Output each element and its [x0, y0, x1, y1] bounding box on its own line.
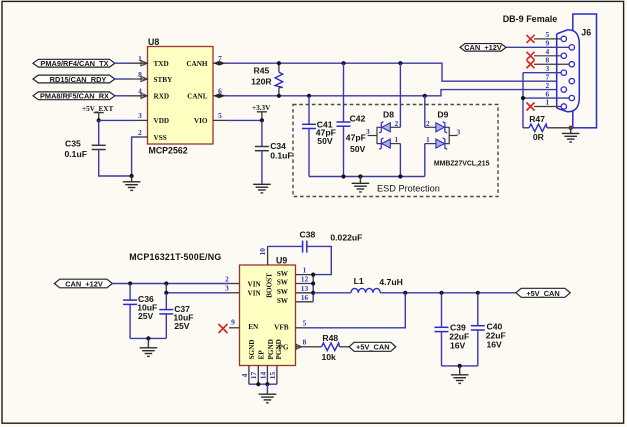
junction ground stem C36/C37 — [146, 336, 150, 340]
no-connect X pin 8 — [527, 60, 535, 68]
svg-text:50V: 50V — [350, 144, 366, 154]
svg-text:12: 12 — [301, 275, 309, 284]
wire ground vertical pin3-pin6-R47 — [522, 73, 524, 128]
svg-text:17: 17 — [249, 372, 258, 380]
svg-text:VDD: VDD — [154, 117, 170, 125]
junction C41 on CANL — [307, 94, 311, 98]
svg-text:PGND: PGND — [275, 339, 283, 359]
svg-text:SW: SW — [277, 288, 289, 296]
U9 pin 10 BOOST stub — [258, 246, 268, 265]
capacitor C41 47pF 50V — [302, 119, 336, 146]
wire U8 VSS to ground corner — [132, 137, 139, 176]
junction SW12 — [311, 281, 315, 285]
svg-text:VIN: VIN — [248, 280, 262, 288]
svg-text:STBY: STBY — [154, 76, 174, 84]
svg-text:VIN: VIN — [248, 290, 262, 298]
svg-text:PGND: PGND — [267, 339, 275, 359]
svg-text:120R: 120R — [251, 77, 272, 87]
J6 pin 8 stub (NC) — [534, 55, 569, 64]
capacitor C36 10uF 25V — [123, 294, 157, 321]
svg-text:TXD: TXD — [154, 60, 169, 68]
junction D8 pin2 on CANH — [398, 61, 402, 65]
dual TVS diode D9 — [425, 109, 461, 149]
IC U9 body — [240, 256, 296, 366]
J6 pin 1 stub (NC) — [534, 98, 561, 107]
svg-text:SW: SW — [277, 270, 289, 278]
svg-text:VSS: VSS — [154, 134, 167, 142]
junction R45 top on CANH — [277, 61, 281, 65]
wire +5V_EXT to U8 VDD — [99, 119, 134, 121]
svg-text:1: 1 — [546, 98, 550, 107]
resistor R45 120R — [251, 63, 283, 96]
wire U8 VIO to +3.3V — [227, 119, 262, 121]
svg-text:SGND: SGND — [248, 340, 256, 360]
svg-text:CANL: CANL — [187, 93, 208, 101]
U8 pin 2 VSS stub — [138, 128, 147, 137]
power port +3.3V — [252, 104, 271, 120]
connector J6 D-shell — [557, 30, 580, 112]
power port +5V_EXT — [82, 105, 113, 121]
wire +5V_EXT down to C35 — [98, 120, 100, 145]
svg-text:D9: D9 — [437, 109, 448, 119]
wire CANH U8 to DB9 step — [227, 63, 569, 81]
svg-text:50V: 50V — [317, 136, 333, 146]
svg-text:CANH: CANH — [186, 60, 208, 68]
junction C37 riser top — [164, 281, 168, 285]
capacitor C34 0.1uF — [255, 141, 293, 160]
svg-text:PMA8/RF5/CAN_RX: PMA8/RF5/CAN_RX — [40, 92, 109, 101]
svg-text:0R: 0R — [533, 132, 545, 142]
ground symbol C36/C37 — [140, 338, 158, 356]
svg-text:2: 2 — [225, 274, 229, 283]
junction SW1 — [311, 273, 315, 277]
junction pin6 on ground vertical — [521, 96, 525, 100]
wire C39 to ground rail — [441, 332, 443, 366]
wire CAN_+12V to U9 VIN pin2 — [112, 283, 228, 285]
wire CANL U8 to DB9 step — [227, 90, 561, 96]
svg-text:PMA9/RF4/CAN_TX: PMA9/RF4/CAN_TX — [40, 59, 108, 68]
ground bus U9 bottom — [249, 383, 277, 385]
svg-text:5: 5 — [303, 318, 307, 327]
U8 pin 8 STBY stub — [130, 70, 148, 82]
wire C37 to ground rail — [165, 314, 167, 339]
svg-text:+3.3V: +3.3V — [252, 104, 271, 112]
svg-text:8: 8 — [303, 337, 307, 346]
svg-text:SW: SW — [277, 279, 289, 287]
wire C41 to ESD ground rail — [308, 129, 310, 177]
svg-text:16: 16 — [301, 293, 309, 302]
ground symbol ESD — [352, 177, 370, 192]
junction VSS / C35 / ground — [130, 174, 134, 178]
svg-text:8: 8 — [138, 70, 142, 79]
no-connect X pin 1 — [527, 103, 535, 111]
svg-text:+5V_EXT: +5V_EXT — [82, 105, 113, 113]
junction C42 on CANH — [341, 61, 345, 65]
J6 pin 4 stub (NC) — [534, 47, 561, 56]
svg-text:VFB: VFB — [274, 323, 289, 331]
capacitor C40 22uF 16V — [471, 322, 506, 350]
svg-text:L1: L1 — [354, 276, 364, 286]
net flag +5V_CAN (at R48) — [349, 342, 396, 351]
net flag PMA9/RF4/CAN_TX — [33, 59, 115, 68]
junction C36 tap — [128, 281, 132, 285]
junction C42 on rail — [341, 174, 345, 178]
wire flag to U8 TXD — [115, 62, 130, 64]
svg-text:3: 3 — [457, 127, 461, 136]
svg-text:MCP16321T-500E/NG: MCP16321T-500E/NG — [129, 252, 221, 262]
junction C37 tap — [164, 291, 168, 295]
wire C40 lead down — [477, 293, 479, 326]
wire L1 to output node — [380, 292, 516, 294]
net flag RD15/CAN_RDY — [33, 75, 115, 84]
junction D9 pin2 on CANL — [423, 94, 427, 98]
U9 pin 5 VFB stub — [296, 318, 307, 328]
svg-text:ESD Protection: ESD Protection — [377, 183, 440, 193]
U9 pin 15 PGND stub — [268, 366, 277, 385]
svg-text:CAN_+12V: CAN_+12V — [464, 43, 502, 52]
U8 pin 4 RXD stub — [130, 87, 148, 99]
J6 pin 5 stub (NC) — [534, 30, 561, 39]
svg-text:J6: J6 — [581, 28, 591, 38]
U9 pin 8 PG stub — [296, 337, 307, 349]
wire flag to U8 RXD — [115, 95, 130, 97]
capacitor C38 0.022uF — [300, 229, 363, 252]
U9 pin 9 EN stub — [229, 317, 240, 328]
svg-text:D8: D8 — [383, 109, 394, 119]
svg-text:25V: 25V — [174, 321, 190, 331]
wire C36 lead down — [129, 284, 131, 300]
J6 pin sockets — [561, 36, 574, 109]
svg-text:C38: C38 — [300, 229, 316, 239]
wire pin10 to C38 — [268, 245, 303, 247]
wire CANL to C41 — [308, 96, 310, 124]
wire riser to VIN pin3 — [166, 284, 228, 293]
ground symbol below C35/VSS — [123, 176, 141, 190]
svg-text:EP: EP — [258, 350, 266, 360]
resistor R48 10k — [322, 333, 350, 362]
U9 pin 4 SGND stub — [240, 366, 249, 385]
junction VFB tap — [403, 291, 407, 295]
svg-text:CAN_+12V: CAN_+12V — [65, 279, 103, 288]
wire SW node to L1 — [313, 292, 351, 294]
svg-text:U9: U9 — [276, 256, 287, 266]
junction shield ground (maroon) — [569, 126, 573, 130]
svg-text:VIO: VIO — [194, 117, 208, 125]
svg-text:16V: 16V — [450, 341, 466, 351]
wire C35 bottom to ground rail — [99, 150, 132, 177]
svg-text:3: 3 — [138, 111, 142, 120]
J6 pin 7 stub (CANH) — [546, 72, 550, 81]
ESD protection dashed box — [293, 105, 498, 197]
svg-text:14: 14 — [258, 372, 267, 380]
svg-text:0.022uF: 0.022uF — [330, 233, 362, 243]
inductor L1 4.7uH — [351, 276, 403, 293]
svg-text:9: 9 — [231, 317, 235, 326]
U9 SW pin 1 stub — [296, 265, 314, 274]
svg-text:1: 1 — [426, 135, 430, 144]
no-connect X pin 5 — [527, 35, 535, 43]
svg-text:6: 6 — [218, 87, 222, 96]
wire C40 to ground rail — [477, 330, 479, 366]
svg-text:3: 3 — [225, 284, 229, 293]
svg-text:+5V_CAN: +5V_CAN — [526, 289, 559, 298]
svg-text:SW: SW — [277, 297, 289, 305]
svg-text:4.7uH: 4.7uH — [379, 277, 402, 287]
svg-text:RXD: RXD — [154, 93, 170, 101]
svg-text:C35: C35 — [65, 138, 81, 148]
net flag CAN_+12V (top) — [460, 43, 506, 52]
no-connect X pin 4 — [527, 52, 535, 60]
U8 pin 7 CANH stub — [213, 54, 227, 66]
junction VIO / +3.3V / C34 — [260, 118, 264, 122]
svg-text:MMBZ27VCL,215: MMBZ27VCL,215 — [434, 160, 490, 167]
J6 pin 6 stub — [523, 89, 569, 98]
junction SW13 — [311, 291, 315, 295]
junction C40 tap — [476, 291, 480, 295]
svg-text:+5V_CAN: +5V_CAN — [356, 343, 389, 352]
svg-text:15: 15 — [268, 372, 277, 380]
capacitor C37 10uF 25V — [159, 304, 193, 331]
ground symbol below C34 — [253, 184, 271, 193]
wire CANH to D8 pin 2 — [399, 63, 401, 127]
svg-text:16V: 16V — [487, 340, 503, 350]
ESD ground rail wire — [309, 176, 425, 178]
U9 SW pin 13 stub — [296, 284, 314, 293]
net flag +5V_CAN (output) — [516, 288, 570, 298]
wire +3.3V to C34 — [261, 120, 263, 146]
U9 SW pin 16 stub — [296, 293, 314, 302]
ground symbol C39/C40 — [451, 366, 469, 384]
junction C39 tap — [439, 291, 443, 295]
svg-text:10: 10 — [258, 248, 267, 256]
U8 pin 3 VDD stub — [134, 111, 148, 120]
wire C37 lead down — [165, 293, 167, 310]
U9 pin 3 VIN stub — [225, 284, 239, 293]
svg-text:C42: C42 — [350, 114, 366, 124]
svg-text:MCP2562: MCP2562 — [149, 146, 188, 156]
svg-text:47pF: 47pF — [346, 133, 366, 143]
svg-text:BOOST: BOOST — [266, 273, 274, 298]
svg-text:1: 1 — [395, 135, 399, 144]
dual TVS diode D8 — [366, 109, 400, 149]
wire CANH to C42 — [343, 63, 345, 121]
capacitor C42 47pF 50V — [337, 114, 366, 155]
capacitor C35 0.1uF — [65, 138, 106, 159]
wire PG to R48 — [306, 346, 322, 348]
svg-text:4: 4 — [138, 87, 142, 96]
svg-text:2: 2 — [426, 119, 430, 128]
svg-text:3: 3 — [366, 127, 370, 136]
svg-text:R45: R45 — [254, 65, 270, 75]
U9 pin 2 VIN stub — [225, 274, 239, 283]
wire SW bus vertical — [312, 275, 314, 302]
junction R45 bottom on CANL — [277, 94, 281, 98]
U8 pin 6 CANL stub — [213, 87, 227, 99]
resistor R47 0R — [523, 114, 571, 142]
wire CANL to D9 pin 2 — [424, 96, 426, 128]
capacitor C39 22uF 16V — [435, 323, 470, 351]
wire D9 pin1 to ESD ground rail — [424, 144, 426, 177]
svg-text:R47: R47 — [529, 114, 545, 124]
svg-text:EN: EN — [248, 323, 259, 331]
wire C39 lead down — [441, 293, 443, 327]
junction D8 on rail — [398, 174, 402, 178]
svg-text:0.1uF: 0.1uF — [65, 149, 87, 159]
wire C34 to ground — [261, 151, 263, 184]
svg-text:25V: 25V — [138, 311, 154, 321]
wire C36 to ground rail — [129, 304, 131, 338]
wire VFB feedback — [306, 293, 405, 328]
junction PGND on bus — [265, 382, 269, 386]
J6 pin 2 stub (CANL) — [546, 81, 550, 90]
svg-text:4: 4 — [240, 373, 249, 377]
svg-text:7: 7 — [218, 54, 222, 63]
svg-text:2: 2 — [395, 119, 399, 128]
ground rail C39/C40 — [442, 365, 478, 367]
junction ground stem on rail — [358, 174, 362, 178]
svg-text:0.1uF: 0.1uF — [270, 151, 292, 161]
ground symbol DB9 shield — [562, 128, 580, 142]
ground rail C36/C37 — [130, 337, 166, 339]
wire C42 to ESD ground rail — [343, 126, 345, 176]
svg-text:1: 1 — [138, 54, 142, 63]
svg-text:R48: R48 — [322, 333, 338, 343]
IC U8 MCP2562 body — [148, 37, 214, 156]
wire flag to U8 STBY — [115, 78, 130, 80]
connector J6 shield rectangle — [573, 14, 597, 128]
svg-text:5: 5 — [218, 111, 222, 120]
wire C38 to SW node — [307, 246, 332, 274]
svg-text:10k: 10k — [322, 352, 337, 362]
net flag PMA8/RF5/CAN_RX — [33, 92, 115, 101]
svg-text:DB-9 Female: DB-9 Female — [503, 14, 558, 24]
U9 pin 14 PGND stub — [258, 366, 267, 385]
junction EP on bus — [256, 382, 260, 386]
svg-text:U8: U8 — [148, 37, 159, 47]
svg-text:2: 2 — [138, 128, 142, 137]
U8 pin 1 TXD stub — [130, 54, 148, 66]
net flag CAN_+12V (bottom) — [54, 279, 112, 288]
U9 SW pin 12 stub — [296, 275, 314, 284]
svg-text:13: 13 — [301, 284, 309, 293]
junction +5V_EXT / VDD / C35 — [97, 118, 101, 122]
wire D8 pin1 to ESD ground rail — [399, 144, 401, 177]
no-connect X on EN — [219, 324, 228, 333]
svg-text:1: 1 — [303, 265, 307, 274]
junction ground stem C39/C40 — [458, 364, 462, 368]
U8 pin 5 VIO stub — [213, 111, 227, 120]
J6 pin 9 stub — [506, 39, 569, 48]
J6 pin 3 stub — [523, 64, 561, 73]
ground symbol U9 — [259, 384, 277, 403]
svg-text:RD15/CAN_RDY: RD15/CAN_RDY — [50, 75, 107, 84]
U9 pin 17 EP stub — [249, 366, 258, 385]
